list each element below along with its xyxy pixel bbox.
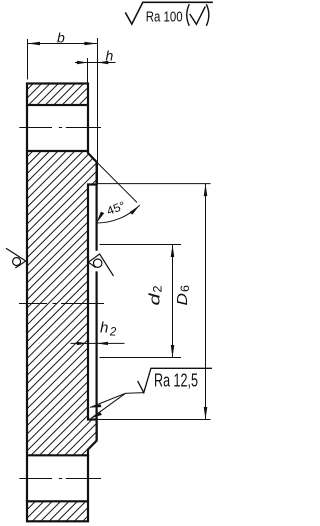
surface note Ra 100 (general) xyxy=(125,2,213,24)
dimension h2 line with outside arrows xyxy=(71,342,88,344)
dimension D6 extension line top xyxy=(97,183,211,185)
dimension b/h extension line right xyxy=(97,38,99,184)
bolt hole (bottom) wire walls xyxy=(26,455,28,501)
dimension h extension line left xyxy=(87,58,89,83)
dimension h line with outside arrows xyxy=(75,62,88,64)
surface symbol (no machining) on outer diameter left xyxy=(6,248,26,268)
svg-text:2: 2 xyxy=(153,286,165,293)
svg-text:Ra 12,5: Ra 12,5 xyxy=(154,369,198,390)
dimension d2 line xyxy=(172,245,174,358)
flange bottom rim section (hatched) xyxy=(27,501,88,521)
svg-text:D: D xyxy=(174,293,191,306)
svg-text:h: h xyxy=(106,48,114,64)
sealing face F2 line upper segment xyxy=(95,162,97,251)
sealing face F2 line lower segment xyxy=(95,271,97,440)
45 degree arc xyxy=(97,205,140,223)
leader lines to recess surfaces xyxy=(90,393,144,408)
flange top rim section (hatched) xyxy=(27,84,88,106)
dimension D6 extension line bottom xyxy=(98,419,211,421)
bolt hole centerline (top) xyxy=(19,127,101,129)
svg-text:Ra 100: Ra 100 xyxy=(146,9,183,26)
dimension d2 extension line bottom xyxy=(100,357,182,359)
dimension d2 extension line top xyxy=(100,244,182,246)
dimension b line xyxy=(28,43,97,45)
surface note Ra 12,5 with leader xyxy=(138,368,212,392)
svg-text:d: d xyxy=(147,293,164,306)
bolt hole (top) wire walls xyxy=(26,105,28,151)
bolt hole centerline (bottom) xyxy=(19,478,101,480)
flange axis centerline xyxy=(19,303,104,305)
flange main body section (hatched) with sealing face and recess xyxy=(27,151,97,455)
45 degree chamfer dimension leg xyxy=(97,162,137,203)
dimension D6 line xyxy=(205,184,207,420)
dimension b extension line left xyxy=(27,39,29,80)
svg-text:6: 6 xyxy=(180,285,192,292)
surface symbol (no machining) on recess floor right xyxy=(88,254,113,276)
svg-text:b: b xyxy=(57,30,65,46)
